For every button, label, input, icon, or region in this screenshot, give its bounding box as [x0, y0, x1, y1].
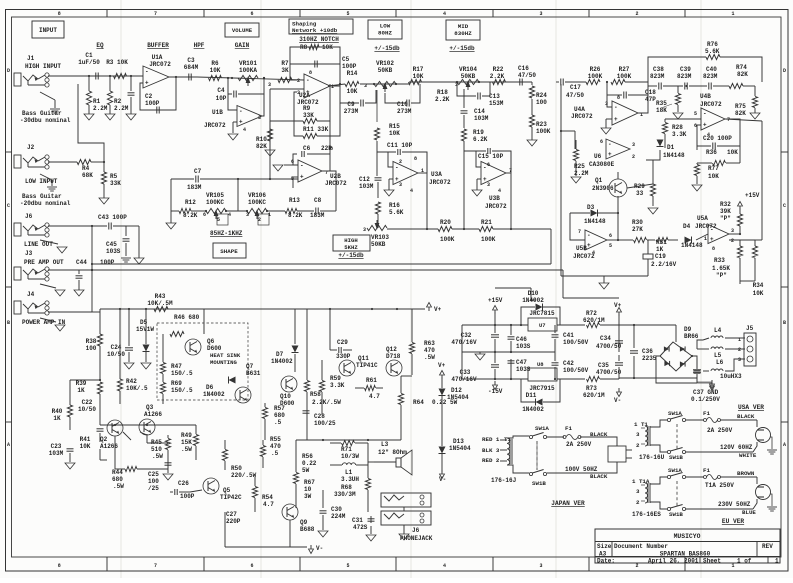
svg-text:1 T1: 1 T1: [634, 421, 648, 428]
svg-text:10K/.5M: 10K/.5M: [147, 300, 173, 307]
svg-text:BLACK: BLACK: [590, 431, 608, 438]
svg-text:-20dbu nominal: -20dbu nominal: [20, 200, 71, 207]
svg-text:2.2M: 2.2M: [114, 105, 129, 112]
svg-text:JRC072: JRC072: [429, 179, 451, 186]
svg-text:F1: F1: [565, 425, 572, 432]
svg-text:"P": "P": [716, 272, 727, 279]
svg-text:R33: R33: [714, 257, 725, 264]
svg-text:R39: R39: [76, 380, 87, 387]
svg-text:V-: V-: [316, 545, 323, 552]
svg-text:U5A: U5A: [697, 215, 708, 222]
svg-text:C22: C22: [82, 399, 93, 406]
svg-text:5: 5: [609, 243, 612, 249]
svg-text:D10: D10: [528, 290, 539, 297]
svg-text:220/.5W: 220/.5W: [231, 472, 257, 479]
svg-text:3: 3: [399, 182, 402, 188]
svg-text:MID: MID: [458, 23, 469, 30]
svg-text:18K: 18K: [656, 107, 667, 114]
svg-text:50KB: 50KB: [371, 241, 386, 248]
svg-text:D600: D600: [207, 345, 222, 352]
svg-text:100P: 100P: [145, 100, 160, 107]
svg-text:R2: R2: [114, 98, 122, 105]
svg-text:C15 10P: C15 10P: [478, 153, 504, 160]
svg-text:BLK 3: BLK 3: [482, 447, 500, 454]
svg-text:R24: R24: [536, 92, 547, 99]
svg-text:100K: 100K: [440, 236, 455, 243]
svg-text:7: 7: [154, 11, 157, 17]
svg-text:-: -: [145, 69, 149, 76]
svg-text:April 26, 2001: April 26, 2001: [648, 558, 699, 565]
svg-text:100P: 100P: [100, 259, 115, 266]
svg-text:R43: R43: [155, 293, 166, 300]
svg-text:/25: /25: [148, 485, 159, 492]
svg-text:830HZ: 830HZ: [454, 30, 472, 37]
svg-text:2: 2: [635, 11, 638, 17]
svg-text:1uF/50: 1uF/50: [78, 59, 100, 66]
svg-text:U4B: U4B: [700, 93, 711, 100]
svg-text:C: C: [7, 203, 10, 209]
svg-text:C34: C34: [600, 335, 611, 342]
svg-text:F1: F1: [703, 467, 710, 474]
svg-text:R57: R57: [274, 405, 285, 412]
svg-text:C27: C27: [226, 511, 237, 518]
svg-text:+: +: [145, 80, 149, 87]
svg-text:103S: 103S: [516, 366, 531, 373]
svg-text:B: B: [7, 320, 10, 326]
svg-text:100/50V: 100/50V: [563, 367, 589, 374]
svg-text:C43 100P: C43 100P: [98, 214, 127, 221]
svg-text:10K: 10K: [413, 73, 424, 80]
svg-text:JRC072: JRC072: [695, 223, 717, 230]
svg-text:A: A: [783, 442, 786, 448]
svg-text:7: 7: [578, 229, 581, 235]
svg-text:A1266: A1266: [144, 411, 162, 418]
svg-text:C17: C17: [570, 84, 581, 91]
svg-text:D11: D11: [526, 392, 537, 399]
svg-text:470: 470: [270, 443, 281, 450]
svg-text:+: +: [614, 116, 618, 123]
svg-text:12" 8Ohm: 12" 8Ohm: [378, 449, 407, 456]
svg-text:+: +: [587, 242, 591, 249]
svg-text:6: 6: [203, 212, 206, 218]
svg-text:1N4148: 1N4148: [584, 218, 606, 225]
svg-text:"P": "P": [720, 215, 731, 222]
svg-text:.5W: .5W: [152, 453, 163, 460]
svg-text:273M: 273M: [397, 108, 412, 115]
svg-text:Bass Guitar: Bass Guitar: [22, 193, 62, 200]
svg-text:R40: R40: [52, 408, 63, 415]
svg-text:C12: C12: [359, 176, 370, 183]
svg-text:L5: L5: [714, 352, 722, 359]
svg-text:JRC7915: JRC7915: [529, 385, 555, 392]
svg-text:C30: C30: [331, 506, 342, 513]
svg-text:0.22: 0.22: [302, 460, 317, 467]
svg-text:C8: C8: [314, 197, 322, 204]
svg-text:R22: R22: [493, 66, 504, 73]
svg-text:176-16ES: 176-16ES: [632, 511, 661, 518]
svg-text:U3B: U3B: [489, 195, 500, 202]
svg-text:VR106: VR106: [248, 192, 266, 199]
svg-text:VR102: VR102: [376, 60, 394, 67]
svg-text:D: D: [7, 68, 10, 74]
svg-text:VR103: VR103: [371, 234, 389, 241]
svg-text:823M: 823M: [650, 73, 665, 80]
svg-text:100: 100: [148, 478, 159, 485]
svg-text:R10: R10: [256, 136, 267, 143]
svg-text:C37 GND: C37 GND: [693, 389, 719, 396]
svg-text:V+: V+: [614, 302, 622, 309]
svg-text:C13: C13: [489, 93, 500, 100]
svg-text:C33: C33: [460, 369, 471, 376]
svg-text:+: +: [703, 122, 707, 129]
svg-text:R68: R68: [341, 484, 352, 491]
svg-text:10: 10: [304, 486, 312, 493]
svg-text:SW1A: SW1A: [535, 425, 549, 432]
svg-text:150/.5: 150/.5: [171, 370, 193, 377]
svg-text:SW1B: SW1B: [532, 480, 546, 487]
svg-text:10K: 10K: [727, 149, 738, 156]
svg-text:273M: 273M: [344, 108, 359, 115]
svg-text:BLUE: BLUE: [742, 509, 756, 516]
svg-text:680: 680: [112, 476, 123, 483]
svg-text:50KB: 50KB: [378, 67, 393, 74]
svg-text:47/50: 47/50: [566, 92, 584, 99]
svg-text:1K: 1K: [53, 415, 61, 422]
svg-text:R16: R16: [389, 202, 400, 209]
svg-text:620/1M: 620/1M: [583, 392, 605, 399]
svg-text:5: 5: [217, 217, 220, 223]
svg-text:V+: V+: [434, 306, 442, 313]
svg-text:Network +10db: Network +10db: [292, 27, 338, 34]
svg-text:EQ: EQ: [96, 42, 104, 49]
svg-text:3.3UH: 3.3UH: [341, 476, 359, 483]
svg-text:4700/50: 4700/50: [596, 343, 622, 350]
svg-text:LOW INPUT: LOW INPUT: [25, 178, 58, 185]
svg-text:100P: 100P: [342, 63, 357, 70]
svg-text:J2: J2: [27, 144, 35, 151]
svg-text:U8: U8: [537, 361, 544, 368]
svg-text:R17: R17: [413, 66, 424, 73]
svg-text:1: 1: [738, 337, 741, 343]
svg-text:3: 3: [363, 227, 366, 233]
svg-text:2: 2: [636, 499, 640, 506]
svg-text:15V1W: 15V1W: [136, 326, 154, 333]
svg-text:Q10: Q10: [280, 393, 291, 400]
svg-text:100KC: 100KC: [248, 199, 266, 206]
svg-text:U1B: U1B: [212, 109, 223, 116]
svg-text:3: 3: [297, 90, 300, 96]
svg-text:R12: R12: [185, 199, 196, 206]
svg-text:Size: Size: [597, 543, 612, 550]
svg-text:C16: C16: [518, 65, 529, 72]
svg-text:C36: C36: [642, 348, 653, 355]
svg-text:VOLUME: VOLUME: [232, 27, 253, 34]
svg-text:+: +: [300, 174, 304, 181]
svg-text:HEAT SINK: HEAT SINK: [210, 352, 241, 359]
svg-text:1N4002: 1N4002: [522, 297, 544, 304]
svg-text:MUSICYO: MUSICYO: [674, 533, 701, 540]
svg-text:2: 2: [731, 238, 734, 244]
svg-text:15K: 15K: [181, 439, 192, 446]
svg-text:1N5404: 1N5404: [449, 445, 471, 452]
svg-text:C19: C19: [655, 253, 666, 260]
svg-text:R34: R34: [753, 282, 764, 289]
svg-text:6: 6: [291, 159, 294, 165]
svg-text:.5: .5: [271, 450, 279, 457]
svg-text:3: 3: [738, 357, 741, 363]
svg-text:8: 8: [617, 95, 620, 101]
svg-text:1: 1: [731, 11, 734, 17]
svg-text:R8: R8: [300, 44, 308, 51]
svg-text:C38: C38: [653, 66, 664, 73]
svg-text:3: 3: [539, 11, 542, 17]
svg-text:R30: R30: [632, 219, 643, 226]
svg-text:10K: 10K: [389, 130, 400, 137]
svg-text:Q11: Q11: [358, 355, 369, 362]
svg-text:330/3M: 330/3M: [334, 491, 356, 498]
svg-text:3K: 3K: [281, 67, 289, 74]
svg-text:R64: R64: [413, 399, 424, 406]
svg-text:J6: J6: [25, 213, 33, 220]
svg-text:U2A: U2A: [299, 92, 310, 99]
svg-text:R73: R73: [586, 385, 597, 392]
svg-text:100/50V: 100/50V: [563, 339, 589, 346]
svg-text:-: -: [306, 77, 310, 84]
svg-text:C45: C45: [106, 241, 117, 248]
svg-text:C4: C4: [217, 87, 225, 94]
svg-text:1: 1: [775, 558, 779, 565]
svg-text:C40: C40: [706, 66, 717, 73]
svg-text:SW1B: SW1B: [669, 511, 683, 518]
svg-text:J5: J5: [746, 325, 754, 332]
svg-text:5: 5: [346, 563, 349, 569]
svg-text:103M: 103M: [359, 183, 374, 190]
svg-text:103M: 103M: [49, 450, 64, 457]
svg-text:510: 510: [151, 446, 162, 453]
svg-text:R41: R41: [80, 436, 91, 443]
svg-text:BUFFER: BUFFER: [147, 42, 169, 49]
svg-text:Date:: Date:: [597, 558, 615, 565]
svg-text:2.2/16V: 2.2/16V: [651, 261, 677, 268]
svg-text:C29: C29: [337, 339, 348, 346]
svg-text:-: -: [710, 226, 714, 233]
svg-text:R63: R63: [424, 340, 435, 347]
svg-text:470/16V: 470/16V: [451, 339, 477, 346]
svg-text:A: A: [7, 442, 10, 448]
svg-text:3: 3: [731, 228, 734, 234]
svg-text:47P: 47P: [645, 96, 656, 103]
svg-text:3: 3: [268, 82, 271, 88]
svg-text:R42: R42: [126, 378, 137, 385]
svg-text:R1: R1: [93, 98, 101, 105]
svg-text:100KC: 100KC: [206, 199, 224, 206]
svg-text:R5: R5: [110, 173, 118, 180]
svg-text:RED 2: RED 2: [482, 457, 500, 464]
svg-text:6: 6: [600, 139, 603, 145]
svg-text:C39: C39: [680, 66, 691, 73]
svg-text:R47: R47: [171, 363, 182, 370]
svg-text:MOUNTING: MOUNTING: [210, 359, 237, 366]
svg-text:+/-15db: +/-15db: [374, 45, 400, 52]
svg-text:Q12: Q12: [386, 346, 397, 353]
svg-text:1N4002: 1N4002: [522, 406, 544, 413]
svg-text:C1: C1: [85, 52, 93, 59]
svg-text:+15V: +15V: [488, 297, 503, 304]
svg-text:+15V: +15V: [745, 192, 760, 199]
svg-text:R71: R71: [341, 446, 352, 453]
svg-text:0.1/250V: 0.1/250V: [691, 396, 720, 403]
svg-text:B631: B631: [246, 370, 261, 377]
svg-text:R18: R18: [437, 89, 448, 96]
svg-text:-: -: [703, 111, 707, 118]
svg-text:39K: 39K: [720, 208, 731, 215]
svg-text:224M: 224M: [331, 513, 346, 520]
svg-text:Q7: Q7: [246, 363, 254, 370]
svg-text:L3: L3: [381, 441, 389, 448]
svg-text:C41: C41: [563, 332, 574, 339]
svg-text:1: 1: [704, 236, 707, 242]
svg-text:2N3906: 2N3906: [592, 185, 614, 192]
svg-text:R55: R55: [270, 436, 281, 443]
svg-text:C3: C3: [187, 57, 195, 64]
svg-text:Q3: Q3: [146, 404, 154, 411]
svg-text:BLACK: BLACK: [737, 413, 755, 420]
svg-text:3: 3: [605, 101, 608, 107]
svg-text:82K: 82K: [256, 143, 267, 150]
svg-text:C11 10P: C11 10P: [387, 142, 413, 149]
svg-text:U6: U6: [594, 153, 602, 160]
svg-text:U3A: U3A: [431, 171, 442, 178]
svg-text:.5: .5: [274, 419, 282, 426]
svg-text:330P: 330P: [336, 353, 351, 360]
svg-text:R7: R7: [281, 60, 289, 67]
svg-text:3: 3: [636, 431, 640, 438]
svg-text:3: 3: [632, 142, 635, 148]
svg-text:R20: R20: [440, 219, 451, 226]
svg-text:PRE AMP OUT: PRE AMP OUT: [24, 259, 64, 266]
svg-text:C14: C14: [474, 108, 485, 115]
svg-text:D9: D9: [684, 326, 692, 333]
svg-text:JRC072: JRC072: [700, 101, 722, 108]
svg-text:.5W: .5W: [424, 354, 435, 361]
svg-text:6: 6: [609, 233, 612, 239]
svg-text:470/16V: 470/16V: [451, 376, 477, 383]
svg-text:6: 6: [250, 563, 253, 569]
svg-text:D1: D1: [667, 144, 675, 151]
svg-text:3: 3: [246, 212, 249, 218]
svg-text:3: 3: [539, 563, 542, 569]
svg-text:2: 2: [632, 154, 635, 160]
svg-text:10/3W: 10/3W: [341, 453, 359, 460]
svg-text:4: 4: [592, 250, 595, 256]
svg-text:C46: C46: [516, 336, 527, 343]
svg-text:J1: J1: [27, 55, 35, 62]
svg-text:1N4148: 1N4148: [681, 242, 703, 249]
svg-text:JRC072: JRC072: [204, 122, 226, 129]
svg-text:JRC7815: JRC7815: [529, 310, 555, 317]
svg-text:D: D: [783, 68, 786, 74]
svg-text:1K: 1K: [77, 387, 85, 394]
svg-text:VR105: VR105: [206, 192, 224, 199]
svg-text:6.2K: 6.2K: [473, 136, 488, 143]
svg-text:R4: R4: [82, 165, 90, 172]
svg-text:R56: R56: [302, 453, 313, 460]
svg-text:100V 50HZ: 100V 50HZ: [565, 466, 598, 473]
svg-text:VR104: VR104: [459, 66, 477, 73]
svg-text:B: B: [783, 320, 786, 326]
svg-text:U1A: U1A: [152, 54, 163, 61]
svg-text:150/.5: 150/.5: [171, 387, 193, 394]
svg-text:-: -: [300, 163, 304, 170]
svg-text:USA VER: USA VER: [738, 404, 764, 411]
svg-text:F1: F1: [703, 410, 710, 417]
svg-text:230V 50HZ: 230V 50HZ: [718, 501, 751, 508]
svg-text:+: +: [239, 118, 243, 125]
svg-text:2.2K: 2.2K: [435, 96, 450, 103]
svg-text:-30dbu nominal: -30dbu nominal: [20, 117, 71, 124]
svg-text:J6: J6: [412, 527, 420, 534]
svg-text:684M: 684M: [184, 64, 199, 71]
svg-text:Q6: Q6: [207, 338, 215, 345]
svg-text:4: 4: [443, 11, 446, 17]
svg-text:5W: 5W: [302, 467, 310, 474]
svg-text:8.2K: 8.2K: [183, 212, 198, 219]
svg-text:D718: D718: [386, 353, 401, 360]
svg-text:220P: 220P: [226, 518, 241, 525]
svg-text:C7: C7: [194, 168, 202, 175]
svg-text:2.2K/.5W: 2.2K/.5W: [312, 399, 341, 406]
svg-text:100: 100: [86, 345, 97, 352]
svg-text:82K: 82K: [737, 71, 748, 78]
svg-text:R74: R74: [736, 64, 747, 71]
svg-text:2235: 2235: [642, 355, 657, 362]
svg-text:4: 4: [410, 188, 413, 194]
svg-text:R27: R27: [619, 66, 630, 73]
svg-text:10K: 10K: [322, 44, 333, 51]
svg-text:C2: C2: [145, 93, 153, 100]
svg-text:HIGH: HIGH: [344, 237, 357, 244]
svg-text:1 of: 1 of: [737, 558, 752, 565]
svg-text:4.7: 4.7: [263, 501, 274, 508]
svg-text:VR101: VR101: [239, 60, 257, 67]
svg-text:2.2M: 2.2M: [93, 105, 108, 112]
svg-text:Sheet: Sheet: [703, 558, 721, 565]
svg-text:176-16J: 176-16J: [491, 477, 516, 484]
svg-text:D7: D7: [276, 351, 284, 358]
svg-text:7: 7: [154, 563, 157, 569]
svg-text:80HZ: 80HZ: [378, 30, 392, 37]
svg-text:J4: J4: [27, 291, 35, 298]
svg-text:10K: 10K: [210, 67, 221, 74]
svg-text:R38: R38: [86, 338, 97, 345]
svg-text:TIP41C: TIP41C: [356, 362, 378, 369]
svg-text:2: 2: [738, 347, 741, 353]
svg-text:176-16U: 176-16U: [639, 454, 665, 461]
svg-text:R59: R59: [330, 375, 341, 382]
svg-text:5: 5: [346, 11, 349, 17]
svg-text:47/50: 47/50: [518, 72, 536, 79]
svg-text:10/50: 10/50: [78, 406, 96, 413]
svg-text:3.3K: 3.3K: [330, 382, 345, 389]
svg-text:2.2K: 2.2K: [490, 73, 505, 80]
svg-text:R61: R61: [366, 377, 377, 384]
svg-text:27K: 27K: [632, 226, 643, 233]
svg-text:C23: C23: [51, 443, 62, 450]
svg-text:C: C: [783, 203, 786, 209]
svg-text:1N5404: 1N5404: [447, 394, 469, 401]
svg-text:BROWN: BROWN: [737, 470, 755, 477]
svg-text:+/-15db: +/-15db: [449, 45, 475, 52]
